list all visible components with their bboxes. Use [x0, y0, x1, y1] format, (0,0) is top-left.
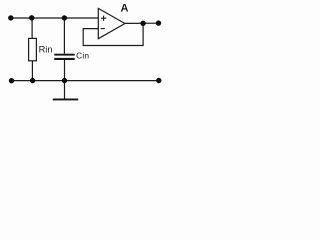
svg-text:Rin: Rin [39, 44, 53, 54]
svg-text:Cin: Cin [76, 51, 89, 61]
svg-text:A: A [121, 3, 129, 15]
